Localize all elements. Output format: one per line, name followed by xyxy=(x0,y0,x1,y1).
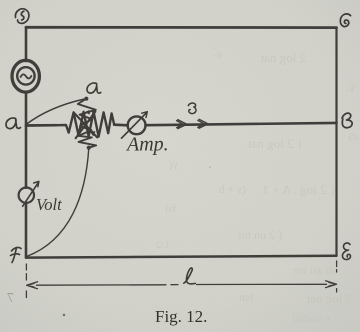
svg-text:1/2: 1/2 xyxy=(156,239,170,251)
svg-text:Volt: Volt xyxy=(36,195,62,214)
wire ammeter-B xyxy=(146,123,337,125)
wire right C-E xyxy=(335,28,337,256)
rheostat middle zigzag xyxy=(78,99,96,148)
ammeter A xyxy=(128,116,146,134)
current label I xyxy=(188,103,196,114)
wiper arrowhead upper xyxy=(86,111,89,114)
wire left middle xyxy=(25,92,28,188)
svg-text:Amp.: Amp. xyxy=(125,134,169,156)
current arrowhead 2 xyxy=(198,119,208,128)
tap dot lower xyxy=(87,146,91,150)
node A label xyxy=(6,118,21,129)
circuit ink xyxy=(12,27,337,297)
tap wire curve from node A xyxy=(26,99,84,124)
svg-text:( 2 un tol: ( 2 un tol xyxy=(238,228,282,242)
svg-text:nb asi ise: nb asi ise xyxy=(293,263,338,277)
meter labels xyxy=(36,134,169,215)
svg-text:Fig. 12.: Fig. 12. xyxy=(155,307,207,326)
rheostat label A xyxy=(87,83,101,93)
voltmeter V xyxy=(19,188,34,203)
svg-text:d-: d- xyxy=(214,50,222,61)
tap dot upper xyxy=(84,97,88,101)
svg-text:2 log nat: 2 log nat xyxy=(260,50,306,65)
AC source G xyxy=(12,60,39,92)
extension dashes right xyxy=(336,261,338,292)
node F label xyxy=(11,247,22,262)
node B label xyxy=(342,113,352,128)
svg-text:fsl: fsl xyxy=(165,203,176,215)
node D label xyxy=(15,9,29,24)
wire left upper xyxy=(25,27,28,61)
dimension arrowhead left xyxy=(27,282,38,289)
svg-text:(s + b: (s + b xyxy=(219,182,246,196)
specks xyxy=(63,166,211,316)
wiper arrowhead lower xyxy=(91,132,95,136)
dimension line xyxy=(37,283,327,286)
wire rheostat-ammeter xyxy=(114,123,128,126)
svg-text:V.: V. xyxy=(346,81,356,95)
node C label xyxy=(340,14,350,27)
svg-text:y(: y( xyxy=(169,159,179,171)
wire main A-rheostat xyxy=(26,124,57,127)
svg-text:7: 7 xyxy=(7,291,14,306)
rheostat cross diagonal 1 xyxy=(74,112,98,137)
wire left lower xyxy=(25,203,28,258)
length label l xyxy=(184,268,195,284)
svg-text:e lisdall: e lisdall xyxy=(292,311,330,325)
svg-text:d): d) xyxy=(349,131,359,143)
wire top D-C xyxy=(26,26,337,29)
dimension arrowhead right xyxy=(326,281,337,288)
extension dashes left xyxy=(25,264,27,298)
wire bottom F-E xyxy=(26,256,337,258)
svg-text:2 log nat: 2 log nat xyxy=(306,291,352,306)
rheostat cross diagonal 2 xyxy=(76,112,96,139)
svg-text:tsn: tsn xyxy=(239,290,253,304)
script letter labels (hand-drawn paths) xyxy=(6,9,352,284)
svg-text:{ 2 log nat: { 2 log nat xyxy=(248,136,303,151)
rheostat R zigzag xyxy=(57,112,115,137)
svg-text:{ 2 log . A + 1: { 2 log . A + 1 xyxy=(262,182,336,197)
node E label xyxy=(342,243,350,260)
current arrowhead 1 xyxy=(177,120,187,129)
tap wire curve to F xyxy=(27,148,89,257)
